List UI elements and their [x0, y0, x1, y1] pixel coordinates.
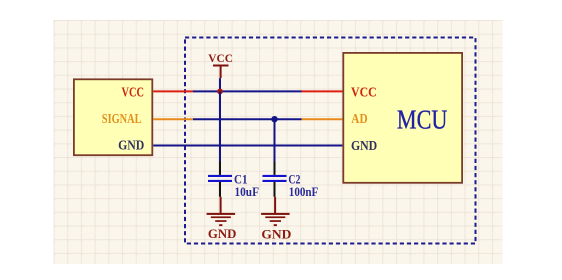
ground symbol (C1)	[207, 197, 236, 226]
svg-text:VCC: VCC	[208, 52, 233, 65]
capacitor C2	[263, 162, 287, 197]
schematic sheet grid background	[54, 20, 503, 264]
svg-text:100nF: 100nF	[289, 184, 319, 199]
junction node AD (blue dot)	[271, 116, 277, 122]
svg-text:GND: GND	[351, 138, 377, 153]
wire VCC net (row 1 middle)	[193, 90, 302, 92]
svg-text:GND: GND	[261, 226, 291, 241]
pin VCC of MCU (red)	[302, 90, 343, 92]
pin VCC of left block (red)	[153, 90, 193, 92]
wire GND net (row 3, full run)	[153, 145, 342, 147]
junction node VCC (red dot)	[217, 89, 223, 95]
left component block	[74, 79, 152, 155]
pin AD of MCU (orange)	[302, 118, 343, 120]
wire AD net (row 2 middle)	[193, 118, 302, 120]
VCC power port bar	[213, 65, 229, 67]
svg-text:SIGNAL: SIGNAL	[102, 111, 142, 126]
wire VCC drop to C1	[219, 91, 221, 161]
capacitor C1	[208, 162, 232, 197]
MCU block	[343, 53, 462, 183]
svg-text:GND: GND	[118, 137, 144, 152]
svg-text:MCU: MCU	[397, 105, 448, 136]
pin SIGNAL of left block (orange)	[153, 118, 193, 120]
VCC power port stem	[220, 67, 222, 79]
svg-text:VCC: VCC	[351, 84, 377, 99]
ground symbol (C2)	[261, 197, 290, 226]
svg-text:GND: GND	[208, 226, 237, 241]
svg-text:10uF: 10uF	[235, 184, 260, 199]
wire VCC symbol to junction	[219, 78, 221, 91]
svg-text:AD: AD	[351, 111, 368, 126]
svg-text:VCC: VCC	[122, 84, 145, 99]
dashed region border	[185, 38, 476, 244]
wire AD drop to C2	[274, 119, 276, 161]
